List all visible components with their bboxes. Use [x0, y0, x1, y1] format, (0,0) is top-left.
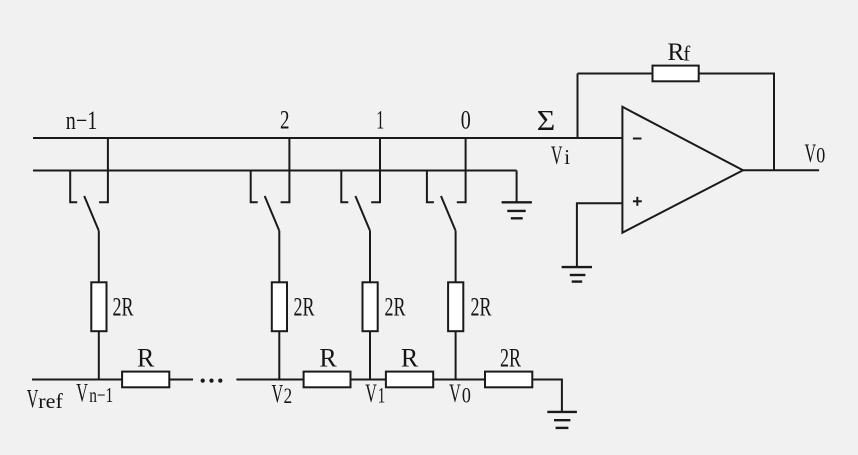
svg-text:0: 0: [462, 383, 471, 408]
pin: non-inverting input plus sign: [633, 197, 642, 206]
wire: lower ground bus: [33, 170, 517, 172]
svg-text:V: V: [449, 379, 461, 408]
svg-text:V: V: [551, 141, 563, 170]
svg-text:2R: 2R: [385, 293, 406, 322]
svg-text:i: i: [564, 145, 570, 169]
switch bit 1: contacts and arm: [341, 138, 380, 282]
wire: [578, 73, 653, 75]
switch bit 2: contacts and arm: [251, 138, 290, 282]
resistor R (between Vn-1 and dots): [122, 372, 169, 388]
resistor R (between V1 and V0): [386, 372, 433, 388]
wire: [169, 379, 193, 381]
svg-text:n−1: n−1: [89, 383, 113, 407]
resistor Rf: [653, 66, 699, 82]
wire: non-inverting input: [577, 203, 623, 267]
wire: [433, 379, 485, 381]
svg-text:0: 0: [461, 105, 471, 134]
op-amp U1: [622, 107, 743, 233]
resistor 2R (bit 2): [272, 282, 287, 331]
resistor 2R (bit 1): [363, 282, 378, 331]
switch bit 0: contacts and arm: [427, 138, 466, 282]
svg-text:R: R: [319, 343, 337, 372]
wire: feedback from summing node up: [577, 74, 579, 139]
ground (ladder terminator): [547, 412, 577, 428]
wire: ladder continuation dots: [201, 379, 223, 383]
ground (right end of ground bus): [502, 202, 532, 218]
resistor R (between V2 and V1): [304, 372, 351, 388]
wire: ground bus drop to ground: [516, 171, 518, 203]
ground (non-inverting input): [562, 267, 592, 282]
wire: [98, 331, 100, 379]
wire: op-amp output: [743, 169, 819, 171]
wire: [455, 331, 457, 379]
svg-text:V: V: [272, 379, 284, 408]
svg-text:2R: 2R: [113, 293, 134, 322]
svg-text:1: 1: [378, 383, 386, 408]
resistor 2R (bit n-1): [91, 282, 106, 331]
switch bit n-1: contacts and arm: [70, 138, 108, 282]
svg-text:V: V: [76, 379, 88, 408]
svg-text:2R: 2R: [471, 293, 492, 322]
pin: inverting input minus sign: [633, 138, 642, 140]
svg-text:V: V: [365, 379, 377, 408]
svg-text:V: V: [805, 139, 817, 168]
svg-text:0: 0: [816, 143, 825, 168]
svg-text:R: R: [667, 37, 684, 66]
wire: [236, 379, 303, 381]
wire: bottom ladder bus Vref to R: [32, 379, 122, 381]
wire: terminator to ground: [532, 380, 562, 412]
wire: [369, 331, 371, 379]
svg-text:1: 1: [376, 105, 384, 134]
svg-text:2R: 2R: [500, 343, 521, 372]
wire: top digit bus (summing line to inverting input): [33, 137, 622, 139]
resistor 2R (bit 0): [448, 282, 463, 331]
svg-text:ref: ref: [38, 389, 63, 413]
svg-text:2: 2: [280, 105, 290, 134]
svg-text:f: f: [683, 41, 690, 65]
wire: [278, 331, 280, 379]
resistor 2R (ladder terminator): [485, 372, 532, 388]
wire: feedback to output: [699, 74, 774, 171]
wire: [351, 379, 386, 381]
svg-text:2R: 2R: [294, 293, 315, 322]
svg-text:R: R: [137, 343, 155, 372]
svg-text:n−1: n−1: [66, 106, 98, 135]
svg-text:R: R: [401, 343, 419, 372]
svg-text:Σ: Σ: [537, 105, 556, 137]
svg-text:V: V: [27, 385, 39, 414]
svg-text:2: 2: [284, 383, 293, 408]
